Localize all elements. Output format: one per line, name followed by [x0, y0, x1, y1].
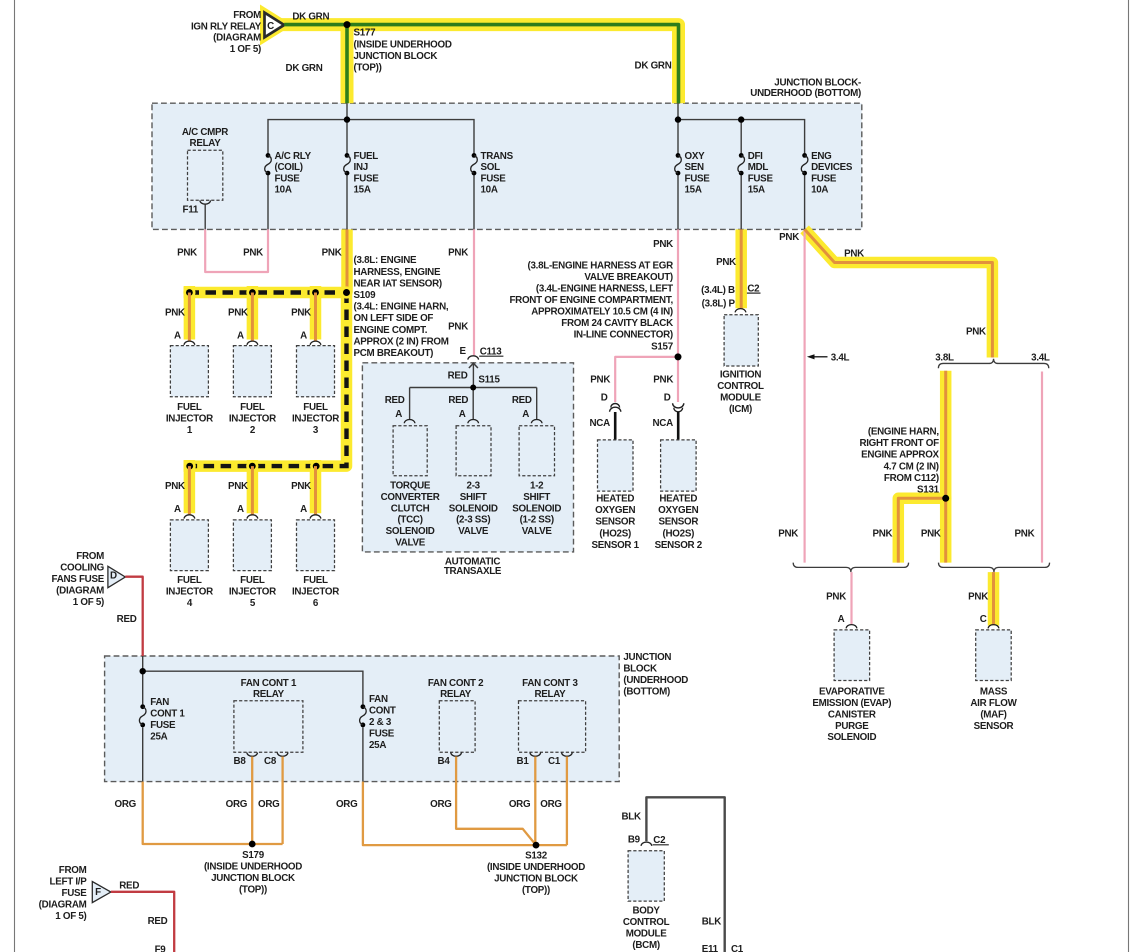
- svg-text:6: 6: [313, 598, 319, 609]
- svg-text:10A: 10A: [481, 185, 498, 196]
- wire PNK to fuel injector 6 (core): [314, 466, 317, 515]
- svg-text:(ENGINE HARN,: (ENGINE HARN,: [868, 427, 939, 438]
- pin A arc (injector 5): [247, 515, 258, 519]
- svg-text:SOLENOID: SOLENOID: [449, 503, 498, 514]
- svg-text:PNK: PNK: [165, 481, 185, 492]
- fuse DFI MDL FUSE 15A: [739, 153, 744, 158]
- svg-text:RED: RED: [448, 395, 468, 406]
- svg-text:EVAPORATIVE: EVAPORATIVE: [819, 687, 885, 698]
- wire RED left I/P: [111, 892, 174, 952]
- JB1 left bus junction: [344, 116, 350, 122]
- wire PNK S157 branches: [677, 357, 679, 402]
- svg-text:(BCM): (BCM): [632, 940, 659, 951]
- svg-text:3.8L: 3.8L: [935, 352, 954, 363]
- pin A arc (injector 3): [310, 341, 321, 345]
- svg-text:AIR FLOW: AIR FLOW: [970, 698, 1017, 709]
- svg-text:(BOTTOM): (BOTTOM): [623, 686, 670, 697]
- fan control 2 relay box: [439, 701, 475, 753]
- svg-text:SHIFT: SHIFT: [460, 492, 487, 503]
- svg-text:(TOP)): (TOP)): [354, 63, 382, 74]
- svg-text:S132: S132: [525, 851, 548, 862]
- svg-text:FROM: FROM: [59, 865, 87, 876]
- svg-text:FUSE: FUSE: [150, 720, 176, 731]
- svg-text:FUEL: FUEL: [240, 575, 265, 586]
- splice S115 dot: [470, 385, 476, 391]
- svg-text:NCA: NCA: [590, 418, 611, 429]
- wire RED cooling fans to JB2: [125, 577, 142, 656]
- svg-text:PNK: PNK: [291, 307, 311, 318]
- svg-text:CONTROL: CONTROL: [717, 381, 764, 392]
- wire PNK 3.8L branch (core): [944, 371, 947, 563]
- svg-text:D: D: [601, 392, 608, 403]
- svg-text:PNK: PNK: [716, 257, 736, 268]
- EVAP canister purge solenoid box: [834, 630, 870, 681]
- wire ORG fan cont 1 fuse to S179: [143, 782, 283, 844]
- svg-text:A: A: [838, 614, 845, 625]
- pin C1 arc: [562, 753, 573, 757]
- wire ORG fan cont 2&3 fuse to S132: [363, 782, 567, 846]
- svg-text:RED: RED: [448, 371, 468, 382]
- svg-text:(DIAGRAM: (DIAGRAM: [39, 899, 87, 910]
- svg-text:FAN CONT 2: FAN CONT 2: [428, 678, 484, 689]
- pin A arc (EVAP): [846, 625, 857, 629]
- svg-text:TORQUE: TORQUE: [390, 481, 431, 492]
- pin A arc (23SS): [468, 419, 479, 423]
- svg-text:FRONT OF ENGINE COMPARTMENT,: FRONT OF ENGINE COMPARTMENT,: [509, 295, 673, 306]
- svg-text:(ICM): (ICM): [729, 404, 752, 415]
- svg-text:HEATED: HEATED: [659, 493, 697, 504]
- splice S131 dot: [942, 495, 949, 502]
- fuse OXY SEN FUSE 15A: [676, 153, 681, 158]
- svg-text:(INSIDE UNDERHOOD: (INSIDE UNDERHOOD: [487, 862, 585, 873]
- wire PNK FUEL INJ fuse to S109 (core): [346, 229, 349, 292]
- svg-text:PNK: PNK: [291, 481, 311, 492]
- svg-text:F: F: [95, 887, 101, 898]
- svg-text:ENGINE APPROX: ENGINE APPROX: [861, 450, 939, 461]
- fuse A/C RLY (COIL) FUSE 10A: [266, 153, 271, 158]
- wire NCA (HO2S 1): [614, 412, 617, 440]
- svg-text:RELAY: RELAY: [253, 689, 285, 700]
- svg-text:HEATED: HEATED: [596, 493, 634, 504]
- svg-text:INJ: INJ: [354, 162, 368, 173]
- svg-text:DEVICES: DEVICES: [811, 162, 853, 173]
- svg-text:FROM: FROM: [233, 10, 261, 21]
- svg-text:B9: B9: [628, 835, 641, 846]
- svg-text:(DIAGRAM: (DIAGRAM: [213, 33, 261, 44]
- svg-text:2: 2: [250, 425, 256, 436]
- svg-text:FUSE: FUSE: [811, 173, 837, 184]
- off-page connector triangle C (from IGN RLY RELAY): [265, 13, 285, 38]
- wire PNK to fuel injector 4 (core): [188, 466, 191, 515]
- svg-text:VALVE: VALVE: [395, 538, 426, 549]
- svg-text:BLK: BLK: [622, 812, 641, 823]
- svg-text:(INSIDE UNDERHOOD: (INSIDE UNDERHOOD: [204, 862, 302, 873]
- svg-text:ENG: ENG: [811, 151, 832, 162]
- svg-text:FUEL: FUEL: [177, 575, 202, 586]
- svg-text:15A: 15A: [354, 185, 371, 196]
- fan control 3 relay box: [519, 701, 586, 753]
- svg-text:IN-LINE CONNECTOR): IN-LINE CONNECTOR): [574, 330, 673, 341]
- splice dots on bus row2: [184, 460, 196, 472]
- svg-text:PNK: PNK: [968, 591, 988, 602]
- svg-text:2 & 3: 2 & 3: [369, 717, 392, 728]
- TCC solenoid valve box: [393, 426, 427, 476]
- svg-text:SENSOR: SENSOR: [974, 721, 1014, 732]
- svg-text:A: A: [237, 504, 244, 515]
- svg-text:A: A: [237, 331, 244, 342]
- svg-text:RELAY: RELAY: [190, 138, 222, 149]
- svg-text:IGN RLY RELAY: IGN RLY RELAY: [191, 21, 262, 32]
- svg-text:INJECTOR: INJECTOR: [292, 586, 339, 597]
- splice dots on bus row1: [183, 286, 195, 298]
- svg-text:PURGE: PURGE: [835, 721, 869, 732]
- svg-text:VALVE: VALVE: [458, 526, 489, 537]
- svg-text:A: A: [522, 409, 529, 420]
- svg-text:PNK: PNK: [448, 247, 468, 258]
- svg-text:FAN CONT 3: FAN CONT 3: [522, 678, 578, 689]
- svg-text:SOLENOID: SOLENOID: [386, 526, 435, 537]
- svg-text:4.7 CM (2 IN): 4.7 CM (2 IN): [884, 461, 939, 472]
- svg-text:FUEL: FUEL: [303, 402, 328, 413]
- fuse FUEL INJ FUSE 15A: [345, 153, 350, 158]
- svg-text:OXY: OXY: [685, 151, 706, 162]
- svg-text:3.4L: 3.4L: [831, 352, 850, 363]
- svg-text:BLK: BLK: [702, 917, 721, 928]
- wire F11 to block edge: [204, 205, 206, 230]
- svg-text:INJECTOR: INJECTOR: [229, 414, 276, 425]
- splice S177: [344, 21, 351, 28]
- svg-text:FUEL: FUEL: [240, 402, 265, 413]
- svg-text:INJECTOR: INJECTOR: [229, 586, 276, 597]
- off-page connector triangle F (from LEFT I/P FUSE): [92, 882, 111, 903]
- svg-text:F9: F9: [155, 945, 167, 952]
- svg-text:A: A: [459, 409, 466, 420]
- svg-text:PNK: PNK: [921, 529, 941, 540]
- fuel injector 5 box: [233, 520, 271, 571]
- highlight bands (yellow trace): [265, 13, 285, 38]
- svg-text:ORG: ORG: [540, 799, 562, 810]
- svg-text:DK GRN: DK GRN: [286, 63, 323, 74]
- wire PNK OXY SEN fuse to S157: [677, 229, 679, 357]
- svg-text:1 OF 5): 1 OF 5): [73, 597, 104, 608]
- svg-text:ORG: ORG: [430, 799, 452, 810]
- arrow 3.4L variant pointer: [807, 354, 815, 359]
- svg-text:C8: C8: [264, 756, 277, 767]
- splice S132 dot: [533, 842, 540, 849]
- pin B1 arc: [530, 753, 541, 757]
- arrow into transaxle from C113: [469, 363, 478, 368]
- svg-text:ORG: ORG: [226, 799, 248, 810]
- svg-text:COOLING: COOLING: [60, 563, 104, 574]
- svg-text:5: 5: [250, 598, 256, 609]
- svg-text:D: D: [664, 392, 671, 403]
- svg-text:4: 4: [187, 598, 193, 609]
- wire DK GRN horizontal + drops: [284, 25, 678, 104]
- svg-text:IGNITION: IGNITION: [720, 369, 762, 380]
- svg-text:(UNDERHOOD: (UNDERHOOD: [623, 675, 688, 686]
- svg-text:PNK: PNK: [448, 321, 468, 332]
- svg-text:PNK: PNK: [228, 307, 248, 318]
- svg-text:(HO2S): (HO2S): [599, 528, 631, 539]
- JB1 left bus wire: [346, 103, 348, 153]
- wire PNK 3.4L branch: [1041, 372, 1043, 563]
- svg-text:3: 3: [313, 425, 319, 436]
- svg-text:PNK: PNK: [590, 375, 610, 386]
- heated oxygen sensor 2 box: [661, 440, 697, 491]
- svg-text:E: E: [460, 346, 467, 357]
- fuel injector 6 box: [297, 520, 335, 571]
- wire PNK to fuel injector 1 (core): [188, 293, 191, 342]
- svg-text:PNK: PNK: [322, 247, 342, 258]
- svg-text:FUEL: FUEL: [354, 151, 379, 162]
- JB1 right bus wire: [677, 103, 679, 153]
- svg-text:C: C: [267, 21, 274, 32]
- 1-2 shift solenoid box: [519, 426, 554, 476]
- svg-text:SOLENOID: SOLENOID: [827, 732, 876, 743]
- svg-text:PNK: PNK: [844, 248, 864, 259]
- svg-text:PNK: PNK: [966, 327, 986, 338]
- wire NCA (HO2S 2): [677, 412, 680, 440]
- svg-text:(INSIDE UNDERHOOD: (INSIDE UNDERHOOD: [354, 39, 452, 50]
- A/C CMPR RELAY box: [188, 150, 223, 200]
- svg-text:PNK: PNK: [228, 481, 248, 492]
- pin B8 arc: [247, 753, 258, 757]
- wire PNK ENG DEVICES 3.4L straight: [803, 229, 805, 562]
- svg-text:CONTROL: CONTROL: [623, 917, 670, 928]
- pin A arc (injector 1): [184, 341, 195, 345]
- svg-text:HARNESS, ENGINE: HARNESS, ENGINE: [354, 267, 441, 278]
- pin A arc (injector 4): [184, 515, 195, 519]
- svg-text:(HO2S): (HO2S): [663, 528, 695, 539]
- pin C arc (MAF): [988, 625, 999, 629]
- svg-text:JUNCTION BLOCK-: JUNCTION BLOCK-: [774, 78, 861, 89]
- svg-text:OXYGEN: OXYGEN: [595, 505, 635, 516]
- svg-text:FUSE: FUSE: [369, 729, 395, 740]
- splice S157 dot: [675, 353, 682, 360]
- svg-text:PNK: PNK: [872, 529, 892, 540]
- svg-text:RED: RED: [119, 880, 139, 891]
- svg-text:1: 1: [187, 425, 193, 436]
- pin F11 connector arc: [200, 200, 211, 204]
- wire PNK to EVAP solenoid: [850, 572, 852, 624]
- svg-text:FUEL: FUEL: [303, 575, 328, 586]
- pin D connector arcs (HO2S 1): [610, 404, 621, 412]
- pin B9 arc (BCM): [641, 842, 652, 846]
- svg-text:S131: S131: [917, 485, 940, 496]
- svg-text:C: C: [980, 614, 987, 625]
- svg-text:SENSOR: SENSOR: [595, 517, 635, 528]
- svg-text:MODULE: MODULE: [720, 392, 762, 403]
- wire PNK F11 to A/C RLY fuse: [205, 229, 268, 272]
- svg-text:A: A: [300, 504, 307, 515]
- svg-text:JUNCTION BLOCK: JUNCTION BLOCK: [211, 873, 295, 884]
- svg-text:CLUTCH: CLUTCH: [391, 503, 430, 514]
- svg-text:C1: C1: [548, 756, 561, 767]
- svg-text:CONT 1: CONT 1: [150, 709, 185, 720]
- svg-text:D: D: [110, 571, 117, 582]
- svg-text:TRANS: TRANS: [481, 151, 514, 162]
- injector bus dashed wires: [184, 293, 353, 467]
- svg-text:F11: F11: [182, 204, 198, 215]
- svg-text:A/C CMPR: A/C CMPR: [182, 127, 228, 138]
- svg-text:CONVERTER: CONVERTER: [381, 492, 440, 503]
- svg-text:(3.8L: ENGINE: (3.8L: ENGINE: [354, 255, 418, 266]
- svg-text:25A: 25A: [150, 731, 167, 742]
- wire PNK DFI MDL fuse to ICM (core): [740, 229, 743, 308]
- svg-text:BODY: BODY: [633, 906, 661, 917]
- svg-text:PNK: PNK: [177, 247, 197, 258]
- svg-text:PNK: PNK: [826, 591, 846, 602]
- fuel injector 1 box: [170, 346, 208, 397]
- junction block JB1 UNDERHOOD (BOTTOM) box: [152, 103, 862, 229]
- svg-text:SENSOR: SENSOR: [658, 517, 698, 528]
- svg-text:A: A: [174, 504, 181, 515]
- svg-text:VALVE BREAKOUT): VALVE BREAKOUT): [584, 272, 673, 283]
- svg-text:PCM BREAKOUT): PCM BREAKOUT): [354, 348, 434, 359]
- svg-text:JUNCTION BLOCK: JUNCTION BLOCK: [354, 51, 438, 62]
- svg-text:B1: B1: [517, 756, 530, 767]
- svg-text:INJECTOR: INJECTOR: [292, 414, 339, 425]
- svg-text:FAN: FAN: [369, 694, 388, 705]
- svg-text:UNDERHOOD (BOTTOM): UNDERHOOD (BOTTOM): [750, 88, 861, 99]
- svg-text:(COIL): (COIL): [275, 162, 303, 173]
- svg-text:INJECTOR: INJECTOR: [166, 414, 213, 425]
- svg-text:S157: S157: [651, 341, 674, 352]
- svg-text:BLOCK: BLOCK: [623, 663, 657, 674]
- svg-text:C1: C1: [731, 944, 744, 952]
- svg-text:(TOP)): (TOP)): [239, 885, 267, 896]
- fuse TRANS SOL FUSE 10A: [472, 153, 477, 158]
- svg-text:PNK: PNK: [653, 375, 673, 386]
- svg-text:FUSE: FUSE: [61, 888, 87, 899]
- fuse FAN CONT 1 FUSE 25A: [140, 704, 145, 709]
- pin B4 arc: [451, 753, 462, 757]
- fuel injector 2 box: [233, 346, 271, 397]
- svg-text:(1-2 SS): (1-2 SS): [520, 515, 554, 526]
- svg-text:3.4L: 3.4L: [1031, 352, 1050, 363]
- svg-text:(TCC): (TCC): [397, 515, 422, 526]
- svg-text:FUSE: FUSE: [481, 173, 507, 184]
- svg-text:NEAR IAT SENSOR): NEAR IAT SENSOR): [354, 278, 442, 289]
- svg-text:PNK: PNK: [243, 247, 263, 258]
- svg-text:S109: S109: [354, 290, 377, 301]
- svg-text:CONT: CONT: [369, 706, 396, 717]
- svg-text:B4: B4: [438, 756, 451, 767]
- pin connector arc (ICM): [735, 309, 746, 313]
- svg-text:RED: RED: [117, 614, 137, 625]
- svg-text:1 OF 5): 1 OF 5): [55, 911, 86, 922]
- svg-text:INJECTOR: INJECTOR: [166, 586, 213, 597]
- svg-text:FUSE: FUSE: [748, 173, 774, 184]
- svg-text:JUNCTION BLOCK: JUNCTION BLOCK: [494, 874, 578, 885]
- svg-text:MODULE: MODULE: [626, 929, 668, 940]
- svg-text:10A: 10A: [275, 185, 292, 196]
- svg-text:LEFT I/P: LEFT I/P: [50, 876, 88, 887]
- svg-text:S177: S177: [354, 28, 377, 39]
- svg-text:VALVE: VALVE: [522, 526, 553, 537]
- wire PNK TRANS SOL fuse to C113: [473, 229, 475, 355]
- svg-text:PNK: PNK: [1015, 529, 1035, 540]
- svg-text:PNK: PNK: [778, 529, 798, 540]
- pin A arc (injector 6): [310, 515, 321, 519]
- svg-text:B8: B8: [234, 756, 247, 767]
- svg-text:PNK: PNK: [165, 307, 185, 318]
- svg-text:A: A: [300, 331, 307, 342]
- svg-text:(MAF): (MAF): [980, 709, 1006, 720]
- automatic transaxle assembly box: [362, 363, 573, 552]
- svg-text:SENSOR 1: SENSOR 1: [592, 540, 640, 551]
- svg-text:FROM C112): FROM C112): [884, 473, 939, 484]
- svg-text:FAN CONT 1: FAN CONT 1: [241, 678, 297, 689]
- svg-text:S115: S115: [478, 375, 500, 386]
- wire PNK to fuel injector 5 (core): [251, 466, 254, 515]
- svg-text:FUSE: FUSE: [275, 173, 301, 184]
- svg-text:DFI: DFI: [748, 151, 763, 162]
- svg-text:RIGHT FRONT OF: RIGHT FRONT OF: [859, 438, 939, 449]
- svg-text:15A: 15A: [748, 185, 765, 196]
- svg-text:SENSOR 2: SENSOR 2: [655, 540, 703, 551]
- svg-text:OXYGEN: OXYGEN: [658, 505, 698, 516]
- svg-text:FAN: FAN: [150, 697, 169, 708]
- svg-text:25A: 25A: [369, 740, 386, 751]
- 2-3 shift solenoid box: [456, 426, 491, 476]
- brace merge EVAP: [793, 563, 908, 573]
- svg-text:NCA: NCA: [653, 418, 674, 429]
- junction block JB2 (UNDERHOOD (BOTTOM)) box: [105, 656, 620, 782]
- brace split 3.8L/3.4L: [938, 359, 1048, 369]
- svg-text:(3.8L-ENGINE HARNESS AT EGR: (3.8L-ENGINE HARNESS AT EGR: [527, 260, 673, 271]
- fuel injector 3 box: [297, 346, 335, 397]
- svg-text:A: A: [174, 331, 181, 342]
- svg-text:CANISTER: CANISTER: [828, 709, 876, 720]
- wire PNK to MAF sensor (core): [992, 572, 995, 624]
- svg-text:(3.8L) P: (3.8L) P: [702, 299, 736, 310]
- svg-text:APPROXIMATELY 10.5 CM (4 IN): APPROXIMATELY 10.5 CM (4 IN): [531, 307, 673, 318]
- pin A arc (injector 2): [247, 341, 258, 345]
- svg-text:15A: 15A: [685, 185, 702, 196]
- wire BLK BCM: [646, 797, 724, 952]
- fuse FAN CONT 2 & 3 FUSE 25A: [361, 704, 366, 709]
- svg-text:DK GRN: DK GRN: [292, 12, 329, 23]
- svg-text:FUSE: FUSE: [685, 173, 711, 184]
- svg-text:1 OF 5): 1 OF 5): [230, 44, 261, 55]
- off-page connector triangle D (from COOLING FANS FUSE): [108, 566, 125, 587]
- svg-text:TRANSAXLE: TRANSAXLE: [444, 566, 502, 577]
- body control module box: [628, 851, 664, 901]
- svg-text:SEN: SEN: [685, 162, 705, 173]
- svg-text:ENGINE COMPT.: ENGINE COMPT.: [354, 325, 428, 336]
- svg-text:2-3: 2-3: [467, 481, 481, 492]
- JB2 bus wire: [142, 656, 144, 704]
- brace merge MAF: [939, 563, 1050, 573]
- svg-text:SOLENOID: SOLENOID: [512, 503, 561, 514]
- svg-text:ORG: ORG: [115, 799, 137, 810]
- connector C113 pin E arc: [468, 356, 479, 360]
- pin A arc (TCC): [404, 419, 415, 423]
- svg-text:RED: RED: [385, 395, 405, 406]
- svg-text:(3.4L) B: (3.4L) B: [701, 285, 735, 296]
- fan control 1 relay box: [234, 701, 303, 753]
- svg-text:FUEL: FUEL: [177, 402, 202, 413]
- svg-text:JUNCTION: JUNCTION: [623, 652, 671, 663]
- ignition control module box: [724, 315, 758, 366]
- fuse ENG DEVICES FUSE 10A: [802, 153, 807, 158]
- svg-text:A: A: [395, 409, 402, 420]
- svg-text:DK GRN: DK GRN: [635, 61, 672, 72]
- wire PNK to fuel injector 3 (core): [314, 293, 317, 342]
- svg-text:PNK: PNK: [779, 232, 799, 243]
- splice S115 wires: [410, 387, 537, 389]
